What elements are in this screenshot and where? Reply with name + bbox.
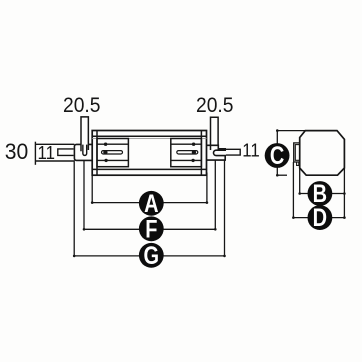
svg-text:F: F [145,215,157,243]
circled label F [139,215,164,243]
circled label C [265,142,290,170]
left tab U-slot [83,145,87,156]
terminal block [294,143,300,162]
svg-text:20.5: 20.5 [63,93,101,117]
left keyhole dot [103,150,107,154]
dim F extension left [83,160,85,229]
dimension 30/11 vertical line [34,142,36,165]
svg-text:C: C [270,142,284,170]
dimension 11 top extension [35,143,74,145]
dimension 11 left arrow bracket [58,149,74,156]
dim F line [84,228,215,230]
svg-text:11: 11 [38,142,56,163]
dim G line [74,255,224,257]
left keyhole slot outline [102,151,123,154]
circled label D [308,204,333,232]
circled label A [139,190,164,218]
dim A extension right [206,173,208,203]
right plate rivet top [192,143,195,146]
faint body seam line [92,138,206,140]
left mounting tab outline [74,144,92,160]
dim B line [300,193,345,195]
right keyhole slot outline [177,151,198,154]
circled label B [308,180,333,208]
dim D line [293,217,344,219]
dim F extension right [214,160,216,229]
left plate rivet top [104,143,107,146]
dim C bottom extension [277,174,287,176]
svg-text:20.5: 20.5 [196,93,234,117]
svg-text:30: 30 [5,139,29,164]
svg-text:11: 11 [242,140,259,161]
svg-text:A: A [144,190,158,218]
dimension 11 right arrow bracket [226,149,240,155]
terminal block foot [297,162,299,165]
ballast body outline (front view) [92,131,206,176]
svg-text:D: D [313,204,327,232]
dim A line [92,202,207,204]
dim B/D extension right [343,168,345,218]
dim C line [276,131,278,176]
left mounting plate [97,139,128,167]
dim A extension left [91,175,93,202]
body bottom crimp line [92,168,206,170]
side view octagon case [300,131,345,176]
body end crimp line left [96,131,98,176]
right plate rivet bottom [191,159,194,162]
right mounting plate [171,139,202,167]
right keyhole dot [192,150,196,154]
body end crimp line right [200,131,202,176]
dim G extension right [224,160,226,256]
dim G extension left [73,160,75,256]
circled label G [139,242,164,270]
right mounting tab outline [207,145,226,160]
dim C top extension [277,130,305,132]
dim D extension left [292,162,294,218]
20.5 dimension bracket right [211,117,219,150]
20.5 dimension bracket left [81,117,88,151]
dimension 11 bottom extension [35,160,74,162]
dim B extension left [299,168,301,194]
body top crimp line [92,135,206,137]
svg-text:G: G [144,242,160,270]
left plate rivet bottom [104,159,107,162]
